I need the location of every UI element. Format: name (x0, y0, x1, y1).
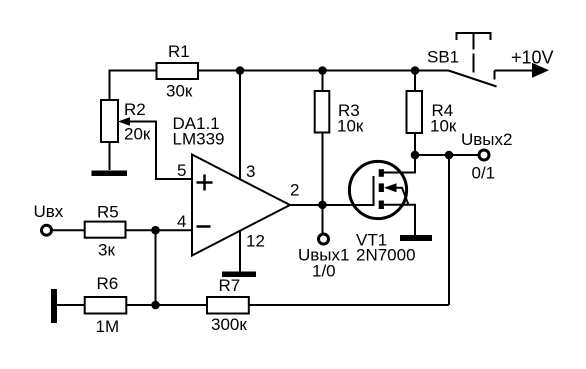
switch SB1 diagonal contact (449, 71, 497, 87)
MOSFET body arrow (384, 183, 397, 192)
terminal Uvx (42, 225, 52, 235)
MOSFET channel drain segment (379, 169, 384, 177)
resistor R3 (315, 91, 330, 133)
svg-text:5: 5 (177, 161, 186, 180)
resistor R4 (407, 91, 423, 133)
junction dot rail R3 (318, 66, 327, 75)
wire R5 to op-amp pin 4 (126, 229, 193, 231)
junction dot output node (318, 201, 327, 210)
svg-text:1/0: 1/0 (312, 262, 336, 281)
svg-text:10к: 10к (337, 117, 364, 136)
svg-text:R1: R1 (168, 42, 190, 61)
MOSFET channel source segment (379, 201, 384, 210)
ground bar left of R6 (51, 289, 57, 323)
wire left bar to R6 (57, 304, 85, 306)
junction dot rail R4 (411, 66, 420, 75)
switch SB1 actuator bracket (457, 33, 491, 40)
terminal Uvyh1 (319, 234, 329, 244)
svg-text:R7: R7 (219, 276, 241, 295)
wire drain node to MOSFET drain (384, 155, 415, 173)
ground symbol below op-amp pin 12 (222, 272, 256, 278)
junction dot node A at pin 4 (151, 226, 160, 235)
wire top rail with drop to R2 (110, 71, 449, 101)
svg-text:Uвых2: Uвых2 (461, 130, 512, 149)
svg-text:300к: 300к (211, 315, 247, 334)
junction dot feedback node (445, 151, 454, 160)
resistor R5 (85, 222, 126, 238)
op-amp plus input sign (197, 175, 213, 191)
wire feedback riser to output node (448, 155, 450, 305)
+10V arrowhead (532, 63, 549, 78)
svg-text:10к: 10к (430, 117, 457, 136)
svg-text:R5: R5 (97, 203, 119, 222)
potentiometer R2 body (101, 100, 118, 142)
junction dot rail pin3 (236, 66, 245, 75)
switch SB1 pushrod lower (473, 54, 475, 73)
MOSFET body diagonal to source (396, 188, 409, 205)
wire R3 top to rail (322, 71, 324, 92)
svg-text:30к: 30к (166, 82, 193, 101)
svg-text:2N7000: 2N7000 (356, 246, 416, 265)
junction dot drain node (411, 151, 420, 160)
resistor R6 (85, 297, 127, 314)
wire op-amp pin 12 to ground (239, 231, 241, 272)
wire R4 bottom to drain node (414, 133, 416, 156)
svg-text:0/1: 0/1 (472, 164, 496, 183)
resistor R1 (157, 63, 199, 79)
ground symbol below R2 (92, 171, 128, 177)
svg-text:+10V: +10V (511, 48, 554, 68)
wire R6 to R7 (126, 304, 207, 306)
MOSFET channel body segment (379, 183, 384, 192)
svg-text:R6: R6 (97, 274, 119, 293)
op-amp DA1.1 triangle (192, 155, 290, 256)
MOSFET drain inner lead (381, 172, 384, 174)
svg-text:Uвх: Uвх (34, 202, 64, 221)
wire R3 bottom to output wire (322, 133, 324, 206)
svg-text:SB1: SB1 (427, 48, 459, 67)
wire vertical link node A to node B (155, 230, 157, 305)
svg-text:R2: R2 (124, 100, 146, 119)
op-amp minus input sign (197, 225, 211, 228)
svg-text:1М: 1М (96, 317, 120, 336)
ground symbol below VT1 source (400, 235, 432, 241)
svg-text:2: 2 (290, 181, 299, 200)
svg-text:4: 4 (177, 212, 186, 231)
svg-text:3: 3 (246, 162, 255, 181)
wire SB1 to +10V arrow (495, 70, 535, 72)
wire op-amp pin 3 to rail (239, 71, 241, 180)
switch SB1 pushrod upper (473, 33, 475, 50)
resistor R7 (207, 297, 249, 314)
wire op-amp output pin 2 to gate (290, 204, 374, 206)
wire R2 bottom to ground (109, 142, 111, 170)
wire R7 right to feedback riser (249, 304, 449, 306)
wire Uvyh1 stub (322, 205, 324, 234)
wire R4 top to rail (414, 71, 416, 92)
MOSFET gate electrode bar (373, 176, 375, 206)
wire R2 wiper to op-amp pin 5 (129, 122, 192, 180)
wire Uvx terminal to R5 (53, 229, 85, 231)
terminal Uvyh2 (479, 150, 489, 160)
wire MOSFET source to ground (384, 205, 415, 235)
svg-text:12: 12 (246, 232, 265, 251)
switch SB1 right fixed contact (494, 71, 496, 80)
svg-text:3к: 3к (98, 241, 115, 260)
junction dot node B at R6-R7 (151, 301, 160, 310)
svg-text:LM339: LM339 (173, 130, 225, 149)
potentiometer R2 wiper arrow (118, 117, 130, 126)
svg-text:20к: 20к (124, 125, 151, 144)
wire drain node to Uvyh2 terminal (415, 154, 478, 156)
MOSFET VT1 circle (349, 161, 406, 218)
